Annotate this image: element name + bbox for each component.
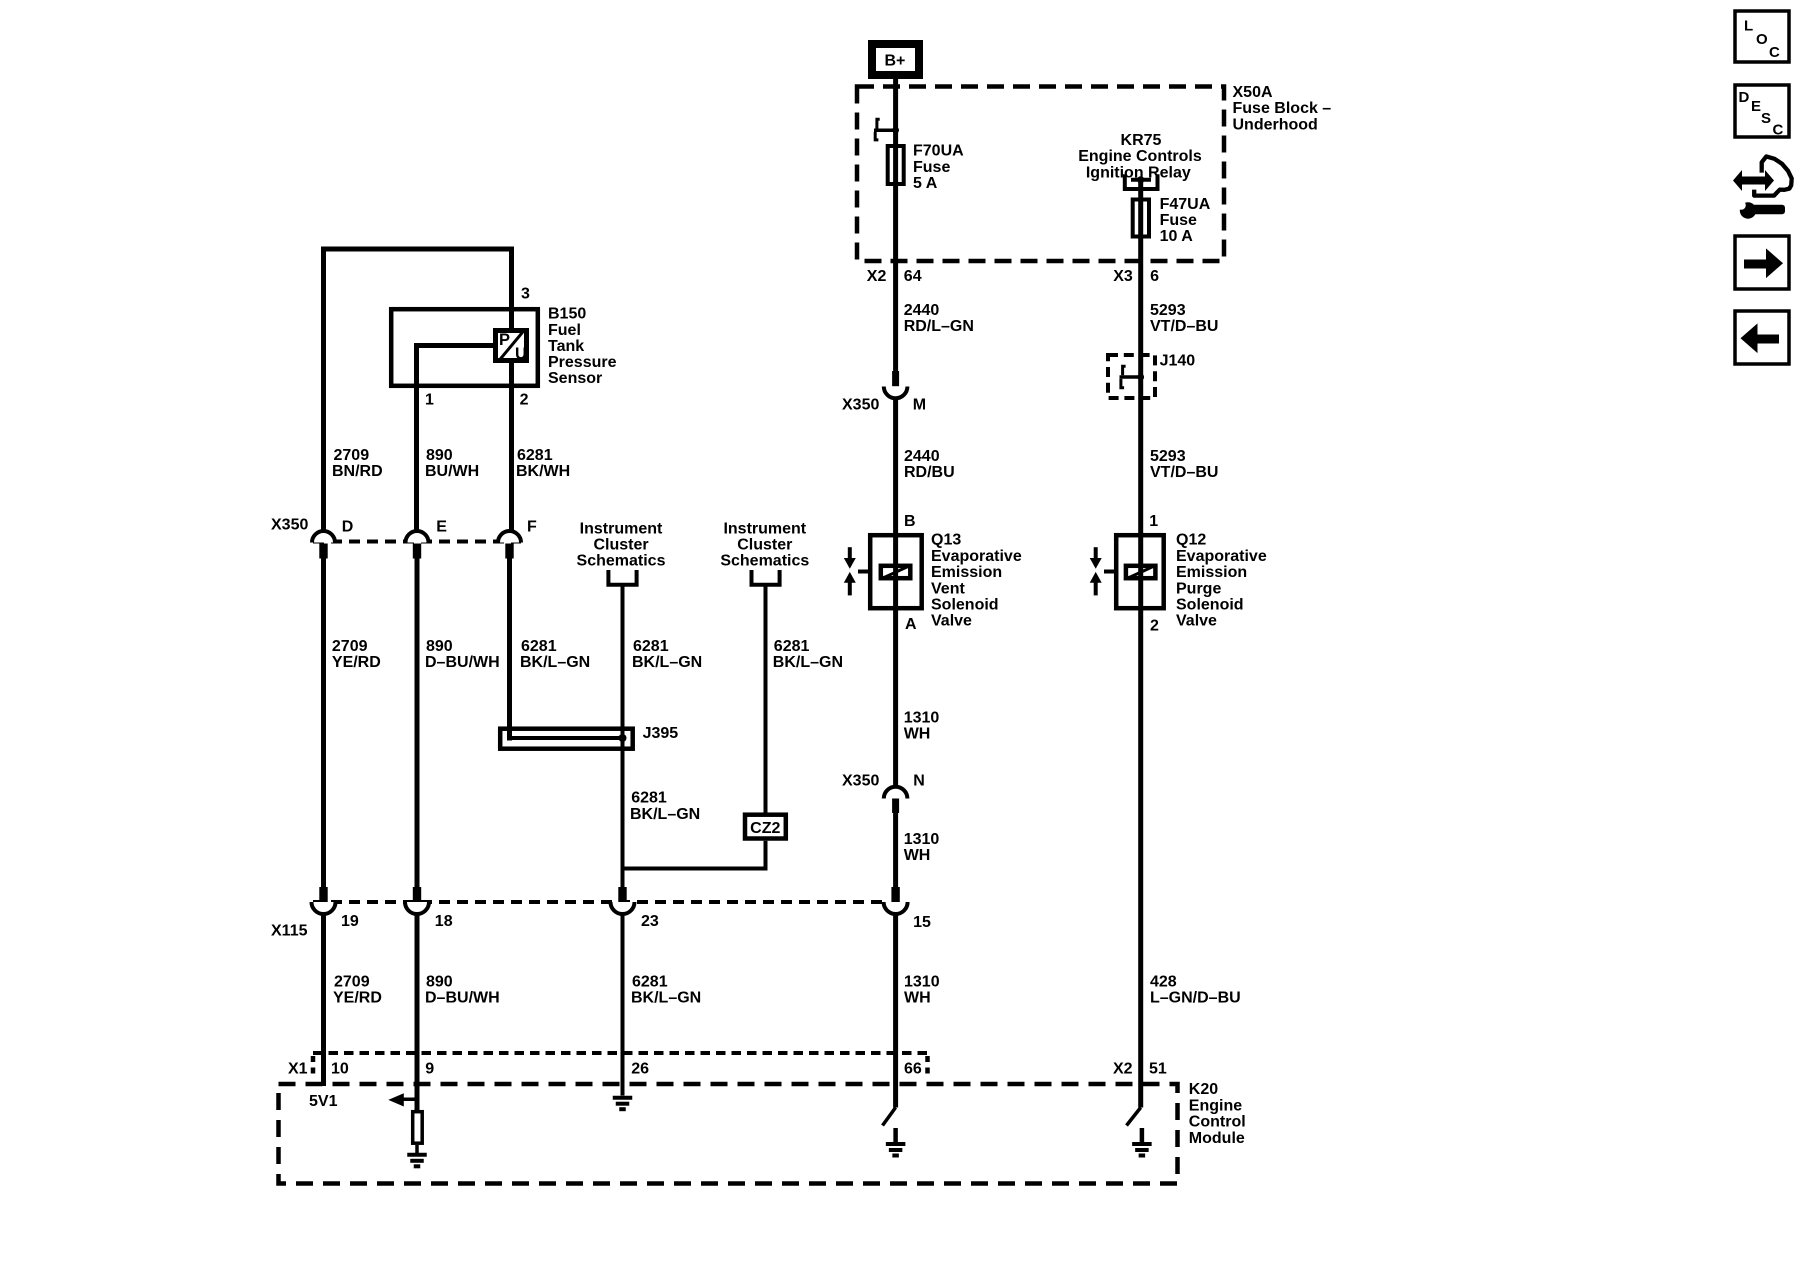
svg-text:Cluster: Cluster (737, 536, 792, 553)
svg-text:64: 64 (904, 268, 922, 285)
svg-text:WH: WH (904, 989, 931, 1006)
svg-text:6281: 6281 (517, 447, 553, 464)
svg-text:X2: X2 (1113, 1061, 1133, 1078)
svg-text:Q12: Q12 (1176, 532, 1206, 549)
svg-text:Fuse: Fuse (1160, 212, 1197, 229)
svg-text:Evaporative: Evaporative (931, 548, 1022, 565)
svg-text:Control: Control (1189, 1114, 1246, 1131)
svg-text:Schematics: Schematics (720, 553, 809, 570)
svg-text:WH: WH (904, 726, 931, 743)
svg-text:19: 19 (341, 913, 359, 930)
svg-text:J140: J140 (1160, 352, 1196, 369)
svg-text:KR75: KR75 (1121, 132, 1162, 149)
svg-text:6281: 6281 (632, 974, 668, 991)
svg-text:A: A (905, 616, 917, 633)
svg-text:BK/WH: BK/WH (516, 463, 570, 480)
svg-text:Instrument: Instrument (580, 520, 663, 537)
svg-text:5V1: 5V1 (309, 1093, 338, 1110)
svg-text:Valve: Valve (931, 613, 972, 630)
svg-text:F47UA: F47UA (1160, 196, 1211, 213)
svg-text:S: S (1761, 110, 1771, 127)
svg-text:Solenoid: Solenoid (1176, 597, 1244, 614)
svg-text:BK/L–GN: BK/L–GN (773, 654, 843, 671)
svg-text:F70UA: F70UA (913, 143, 964, 160)
svg-text:Engine Controls: Engine Controls (1078, 148, 1202, 165)
svg-text:C: C (1773, 122, 1784, 139)
svg-text:Module: Module (1189, 1130, 1245, 1147)
svg-text:C: C (1769, 44, 1780, 61)
svg-text:18: 18 (435, 913, 453, 930)
svg-text:Fuse Block –: Fuse Block – (1233, 100, 1332, 117)
svg-text:2: 2 (520, 392, 529, 409)
svg-text:Instrument: Instrument (723, 520, 806, 537)
svg-text:CZ2: CZ2 (750, 820, 780, 837)
svg-text:Q13: Q13 (931, 532, 961, 549)
svg-text:23: 23 (641, 913, 659, 930)
svg-text:51: 51 (1149, 1061, 1167, 1078)
svg-text:E: E (436, 519, 447, 536)
svg-text:Sensor: Sensor (548, 370, 602, 387)
svg-text:Cluster: Cluster (593, 536, 648, 553)
svg-text:L: L (1744, 18, 1753, 35)
svg-text:Schematics: Schematics (577, 553, 666, 570)
svg-text:N: N (913, 772, 925, 789)
svg-text:9: 9 (425, 1061, 434, 1078)
svg-text:M: M (913, 397, 926, 414)
svg-text:1: 1 (425, 392, 434, 409)
svg-text:X350: X350 (842, 772, 879, 789)
svg-text:X1: X1 (288, 1061, 308, 1078)
svg-text:Emission: Emission (931, 564, 1002, 581)
svg-text:VT/D–BU: VT/D–BU (1150, 464, 1218, 481)
svg-text:B+: B+ (885, 53, 906, 70)
svg-text:BN/RD: BN/RD (332, 463, 383, 480)
svg-text:Pressure: Pressure (548, 354, 617, 371)
svg-text:66: 66 (904, 1061, 922, 1078)
svg-text:X2: X2 (867, 268, 887, 285)
svg-text:L–GN/D–BU: L–GN/D–BU (1150, 989, 1241, 1006)
svg-text:YE/RD: YE/RD (333, 989, 382, 1006)
svg-text:D–BU/WH: D–BU/WH (425, 654, 500, 671)
svg-text:X115: X115 (271, 923, 308, 940)
svg-text:Engine: Engine (1189, 1097, 1242, 1114)
svg-text:Solenoid: Solenoid (931, 597, 999, 614)
svg-text:1310: 1310 (904, 831, 940, 848)
svg-text:BK/L–GN: BK/L–GN (520, 654, 590, 671)
svg-text:VT/D–BU: VT/D–BU (1150, 318, 1218, 335)
svg-text:10: 10 (331, 1061, 349, 1078)
svg-text:P: P (499, 331, 510, 349)
svg-text:890: 890 (426, 447, 453, 464)
svg-text:Ignition Relay: Ignition Relay (1086, 164, 1191, 181)
svg-text:WH: WH (904, 847, 931, 864)
svg-text:Fuel: Fuel (548, 322, 581, 339)
svg-text:BK/L–GN: BK/L–GN (632, 654, 702, 671)
svg-text:Tank: Tank (548, 338, 584, 355)
svg-text:U: U (515, 345, 527, 363)
svg-text:6281: 6281 (633, 638, 669, 655)
svg-text:15: 15 (913, 914, 931, 931)
svg-text:6: 6 (1150, 268, 1159, 285)
svg-text:428: 428 (1150, 974, 1177, 991)
svg-text:Emission: Emission (1176, 564, 1247, 581)
svg-text:1310: 1310 (904, 974, 940, 991)
svg-text:26: 26 (631, 1061, 649, 1078)
svg-text:Evaporative: Evaporative (1176, 548, 1267, 565)
svg-text:6281: 6281 (521, 638, 557, 655)
svg-text:5 A: 5 A (913, 175, 938, 192)
svg-text:Purge: Purge (1176, 580, 1221, 597)
svg-text:6281: 6281 (631, 790, 667, 807)
svg-text:D–BU/WH: D–BU/WH (425, 989, 500, 1006)
svg-text:2440: 2440 (904, 302, 940, 319)
svg-text:890: 890 (426, 638, 453, 655)
svg-text:5293: 5293 (1150, 448, 1186, 465)
svg-text:2709: 2709 (334, 447, 370, 464)
svg-text:6281: 6281 (774, 638, 810, 655)
svg-text:3: 3 (521, 286, 530, 303)
svg-text:Valve: Valve (1176, 613, 1217, 630)
svg-text:BU/WH: BU/WH (425, 463, 479, 480)
svg-text:X3: X3 (1113, 268, 1133, 285)
svg-text:Underhood: Underhood (1233, 116, 1318, 133)
svg-text:RD/BU: RD/BU (904, 464, 955, 481)
svg-text:D: D (1739, 89, 1750, 106)
svg-text:BK/L–GN: BK/L–GN (631, 989, 701, 1006)
svg-text:D: D (342, 519, 354, 536)
svg-text:2: 2 (1150, 617, 1159, 634)
svg-text:890: 890 (426, 974, 453, 991)
svg-text:K20: K20 (1189, 1081, 1218, 1098)
svg-text:J395: J395 (643, 725, 679, 742)
svg-text:10 A: 10 A (1160, 228, 1194, 245)
svg-text:X350: X350 (842, 397, 879, 414)
svg-text:O: O (1756, 31, 1768, 48)
svg-text:F: F (527, 519, 537, 536)
svg-text:RD/L–GN: RD/L–GN (904, 318, 974, 335)
svg-text:Vent: Vent (931, 580, 965, 597)
svg-text:BK/L–GN: BK/L–GN (630, 806, 700, 823)
svg-text:2709: 2709 (334, 974, 370, 991)
svg-text:B150: B150 (548, 306, 586, 323)
svg-text:X350: X350 (271, 517, 308, 534)
svg-text:E: E (1751, 98, 1761, 115)
svg-text:1: 1 (1149, 513, 1158, 530)
svg-text:1310: 1310 (904, 710, 940, 727)
svg-text:Fuse: Fuse (913, 159, 950, 176)
svg-text:B: B (904, 513, 916, 530)
svg-text:5293: 5293 (1150, 302, 1186, 319)
svg-text:2440: 2440 (904, 448, 940, 465)
svg-text:X50A: X50A (1233, 84, 1273, 101)
svg-text:2709: 2709 (332, 638, 368, 655)
svg-text:YE/RD: YE/RD (332, 654, 381, 671)
